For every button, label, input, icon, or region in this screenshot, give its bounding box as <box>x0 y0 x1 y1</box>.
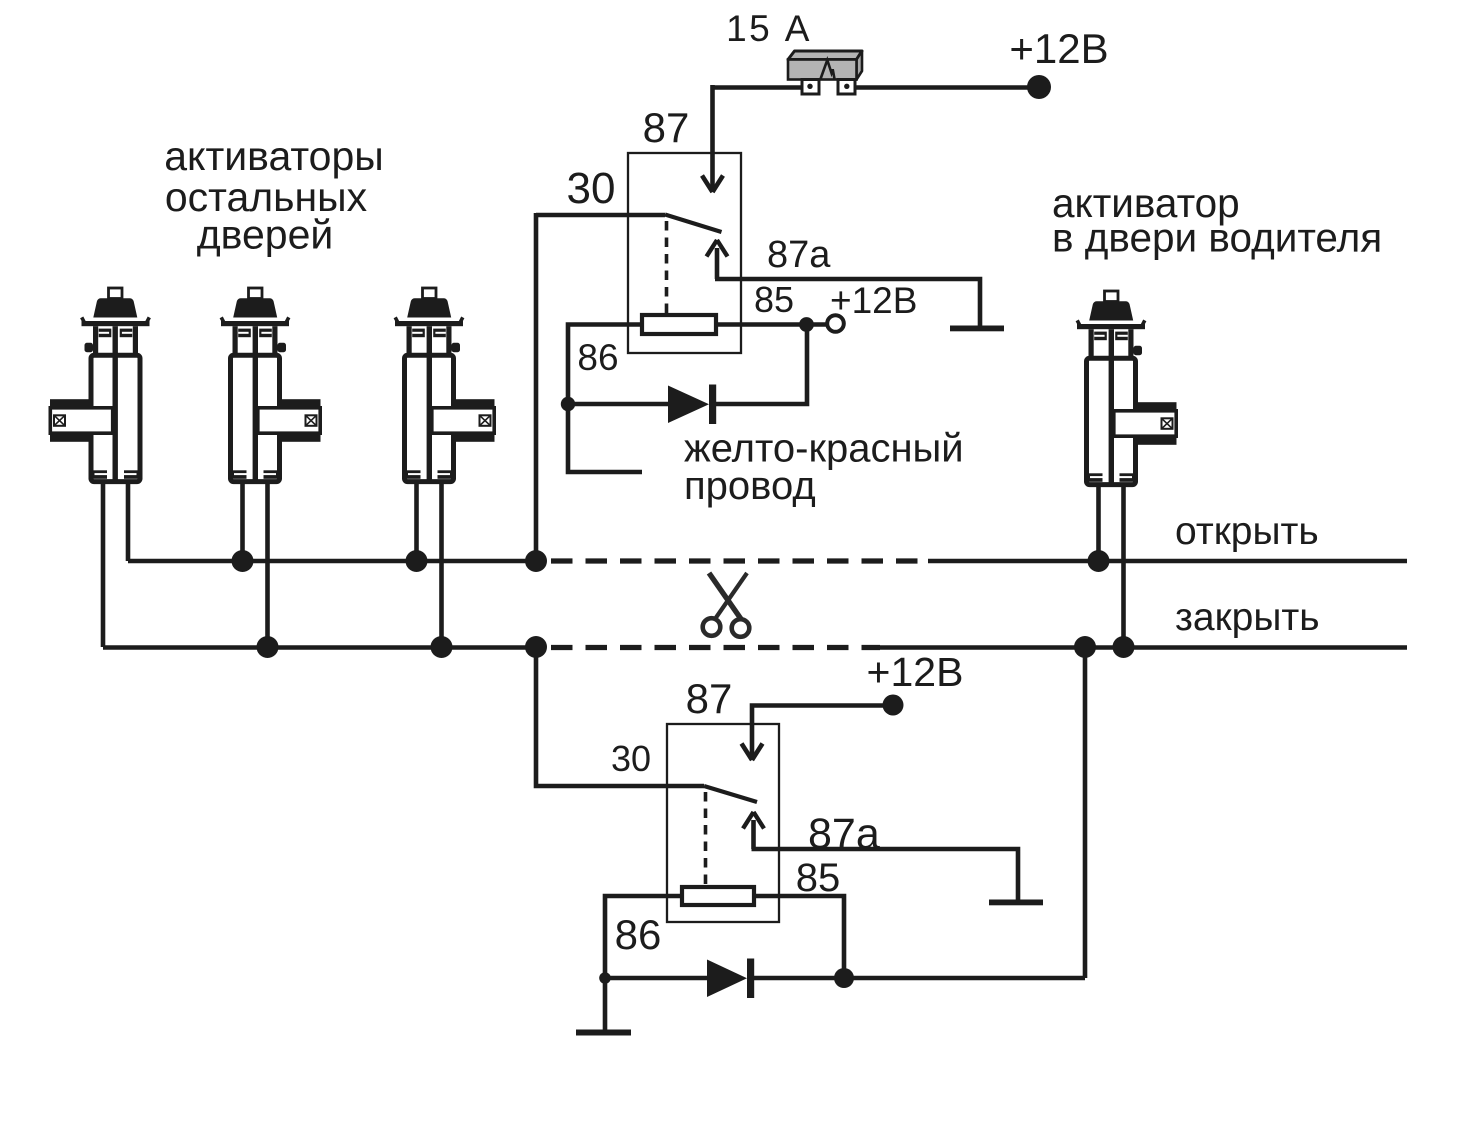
+12V supply terminal dot <box>1027 75 1051 99</box>
arrow into relay K2 pin 87 <box>742 744 763 761</box>
diode VD1 <box>668 386 709 424</box>
junction open/act3 <box>406 550 428 572</box>
wire fuse down to relay K1 pin 87 <box>710 85 715 177</box>
wire +12V to K2 pin 87 <box>752 706 884 746</box>
relay K2 armature dashed link <box>704 792 708 885</box>
svg-text:87: 87 <box>643 104 690 151</box>
svg-text:открыть: открыть <box>1175 510 1319 553</box>
wire open-line dashed cut section <box>551 558 928 563</box>
cut mark scissors <box>703 573 750 637</box>
ground (K2 86) <box>576 1030 631 1036</box>
svg-text:+12В: +12В <box>1009 25 1108 72</box>
+12V ring terminal (85) <box>827 315 844 332</box>
svg-text:86: 86 <box>615 911 662 958</box>
wire open-line solid right <box>928 559 1407 564</box>
fuse F1 body (3D blade fuse) <box>788 51 862 60</box>
diode VD2 anode wire <box>605 976 707 981</box>
svg-text:дверей: дверей <box>197 212 334 258</box>
junction open/act2 <box>232 550 254 572</box>
wire A3 left leg to open-line <box>414 482 419 561</box>
svg-text:+12В: +12В <box>867 649 964 695</box>
fuse element zigzag <box>821 60 835 80</box>
ground (K2 87a) <box>989 900 1043 906</box>
svg-text:87а: 87а <box>767 234 831 276</box>
relay K2 switch arm <box>704 786 757 802</box>
junction close/K2 85 riser <box>1074 636 1096 658</box>
diode VD2 <box>707 960 747 998</box>
diode VD2 cathode wire <box>754 976 1085 981</box>
wire 87a (K2) to ground <box>752 849 1019 900</box>
wire coil 85 (K2) down to diode junction <box>754 896 844 978</box>
wire riser diode line to close-line <box>1083 647 1088 978</box>
relay K2 box <box>667 724 779 922</box>
relay K1 coil <box>642 315 716 334</box>
svg-text:закрыть: закрыть <box>1175 596 1320 639</box>
wire A1 right leg to open-line <box>126 482 131 561</box>
junction diode/85 (K2) <box>834 968 854 988</box>
svg-text:85: 85 <box>796 856 841 900</box>
wire A2 left leg to open-line <box>240 482 245 561</box>
junction open/relay K1 <box>525 550 547 572</box>
wire close-line solid right <box>880 645 1407 650</box>
diode VD1 anode wire <box>568 402 668 407</box>
actuator A3 rear door <box>395 288 495 482</box>
wire riser 30 down to open line <box>534 213 539 561</box>
wire fuse to +12V terminal <box>853 85 1028 90</box>
svg-text:30: 30 <box>567 164 616 213</box>
wire close-line riser to K2 pin 30 <box>536 645 704 786</box>
wire close-line solid left <box>103 645 546 650</box>
wire open-line solid left <box>128 559 546 564</box>
junction close/driver-door actuator <box>1113 636 1135 658</box>
wire +12V feed left of fuse <box>713 85 802 90</box>
svg-text:в двери водителя: в двери водителя <box>1052 215 1382 261</box>
svg-text:30: 30 <box>611 738 651 779</box>
wire close-line dashed cut section <box>551 645 880 650</box>
relay K1 87a arrow <box>715 248 720 279</box>
wire coil 86 (K2) to ground <box>605 896 682 1030</box>
diode VD1 cathode wire up to 85 <box>716 325 807 405</box>
ground (K1 87a) <box>950 326 1004 332</box>
relay K1 box <box>628 153 741 353</box>
relay K2 87a arrow <box>751 820 756 849</box>
fuse terminal right <box>838 80 855 95</box>
junction open/driver-door actuator <box>1088 550 1110 572</box>
junction 86/diode <box>561 397 575 411</box>
svg-text:15 А: 15 А <box>726 8 812 49</box>
svg-text:+12В: +12В <box>830 280 917 321</box>
wire 87a to ground <box>715 279 980 326</box>
svg-text:активаторы: активаторы <box>164 133 384 179</box>
+12V terminal dot (K2 87) <box>883 695 904 716</box>
junction 86/diode (K2) <box>599 972 611 984</box>
relay K1 switch arm <box>665 215 722 233</box>
fuse terminal left <box>802 80 819 95</box>
wire A4 left leg to open-line <box>1096 485 1101 561</box>
svg-text:86: 86 <box>577 337 618 378</box>
relay K2 coil <box>682 887 754 905</box>
wire node 30 to relay K1 <box>536 213 665 218</box>
actuator A4 driver door <box>1077 291 1177 485</box>
wire coil 86 stub (yellow-red wire) <box>568 325 642 473</box>
svg-text:провод: провод <box>684 464 816 508</box>
junction 85/diode <box>799 317 814 332</box>
wire A2 right leg to close-line <box>265 482 270 647</box>
arrow into relay K1 pin 87 <box>710 177 715 189</box>
relay K1 armature dashed link <box>665 221 669 313</box>
junction close/act3 <box>431 636 453 658</box>
actuator A1 rear door (mirrored) <box>50 288 150 482</box>
junction close/relay K2 <box>525 636 547 658</box>
svg-text:85: 85 <box>754 279 794 320</box>
wire coil 85 to +12V tap <box>716 322 828 327</box>
wire A4 right leg to close-line <box>1121 485 1126 647</box>
svg-text:87: 87 <box>686 675 733 722</box>
wire A3 right leg to close-line <box>439 482 444 647</box>
junction close/act2 <box>257 636 279 658</box>
actuator A2 rear door <box>221 288 321 482</box>
wire A1 left leg to close-line <box>101 482 106 647</box>
